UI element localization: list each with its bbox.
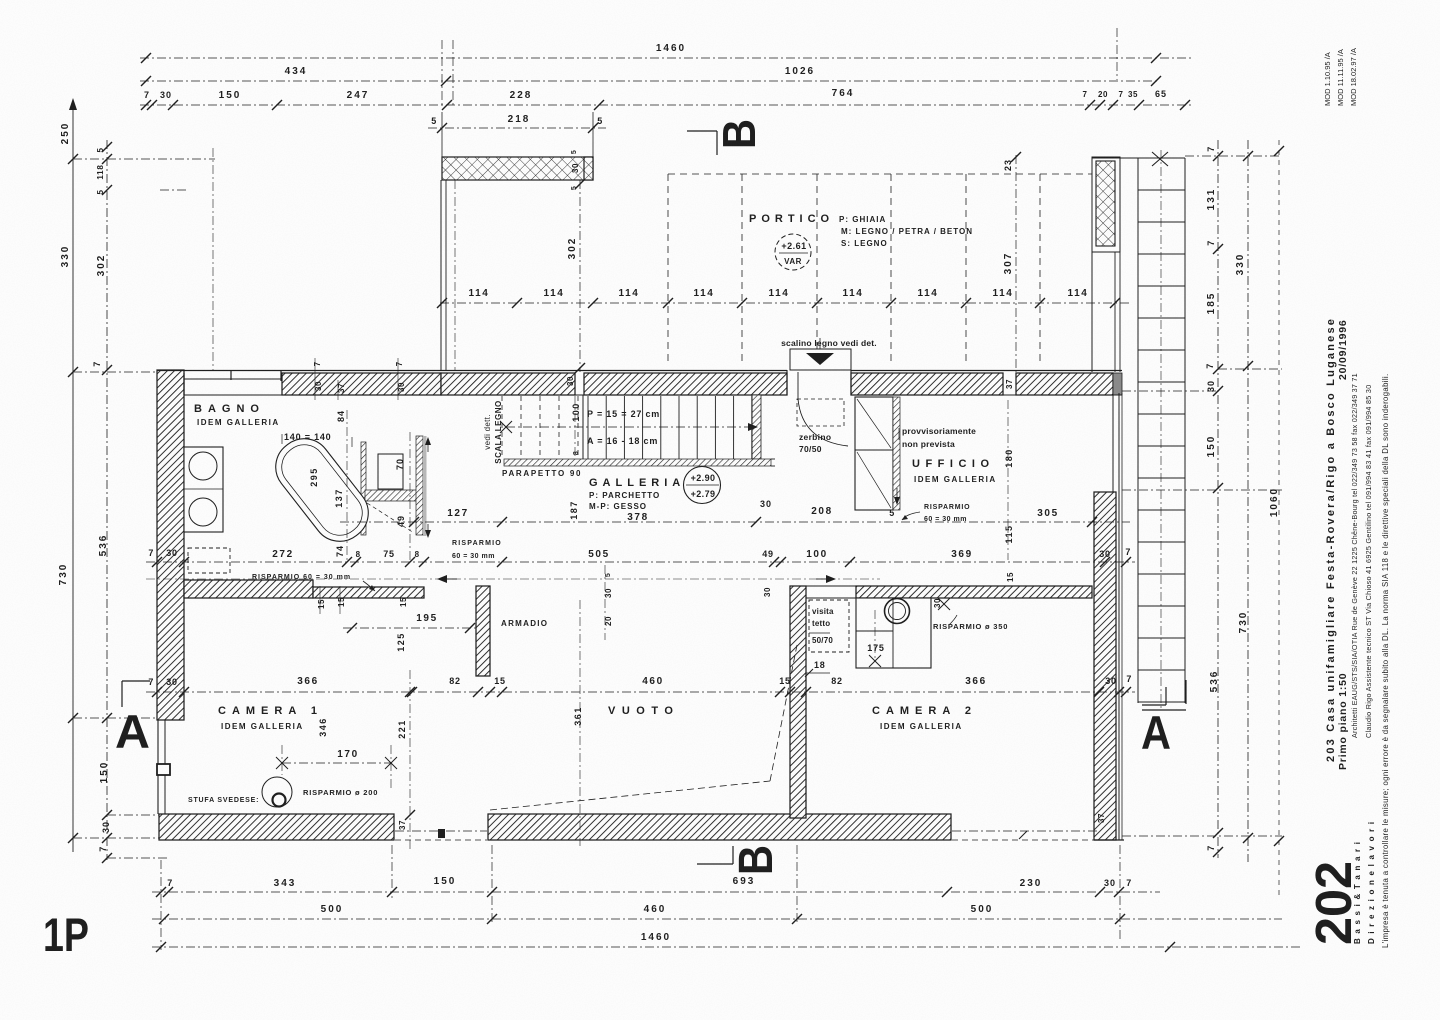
portico column crosshatched right: [1092, 157, 1120, 372]
scalino legno step with arrow: [781, 338, 877, 370]
dimension row 7/30/366/82/15/460/15/82/366/30/7: [146, 674, 1135, 697]
sheet number 202 rotated: [1305, 861, 1362, 945]
label parapetto 90: [502, 469, 582, 478]
external stair ladder right side: [1138, 150, 1185, 710]
wall between vuoto and camera 2 hatched: [790, 586, 806, 818]
portico roof dashed outline and columns: [668, 174, 1092, 364]
dimension line with direction arrows y579: [146, 575, 880, 583]
left outer dimension column 250/330/730: [58, 98, 78, 852]
dimension row total width 1460: [140, 43, 1193, 63]
dimension row 7/30/272/74/8/75/8/505/49/100/369/30/7: [146, 545, 1135, 567]
portico top edge line: [1092, 157, 1185, 159]
bottom vertical extension lines: [161, 845, 1120, 950]
room label GALLERIA: [589, 477, 685, 511]
dimension row 114 portico bays: [437, 288, 1130, 308]
wc partition walls hatched: [361, 436, 427, 536]
label provvisoriamente non prevista: [899, 426, 976, 449]
wall left thin lower segment with pillar: [157, 720, 184, 814]
wc niche arrows: [425, 437, 431, 538]
wall bottom camera 1 hatched: [159, 814, 394, 840]
room label CAMERA 2: [872, 705, 977, 731]
room label PORTICO: [749, 213, 973, 248]
armadio label and dimension 195/125: [343, 613, 548, 652]
wall right exterior hatched: [1094, 393, 1124, 840]
disclaimer line rotated: [1381, 373, 1390, 948]
label 140=140 bathtub: [282, 432, 352, 447]
label 18 camera 2: [805, 660, 830, 677]
subtitle primo piano and date rotated: [1337, 319, 1349, 770]
visita tetto dashed access box: [809, 600, 849, 652]
beam crosshatched 218 top: [442, 157, 593, 180]
label risparmio 60x30 entrance: [894, 488, 970, 523]
right dimension column 330/730: [1235, 140, 1253, 862]
mod revision lines rotated: [1323, 48, 1358, 106]
bottom dimension row 7/343/150/693/230/30/7: [152, 876, 1160, 897]
section mark B bottom: [697, 845, 783, 875]
section mark A right: [1141, 680, 1186, 759]
left inner dimension column 5/118/5/302/7/536/150/30/7: [92, 140, 112, 863]
section mark B top: [687, 119, 765, 155]
dimension vertical 302 shaft: [566, 150, 585, 386]
title 203 casa unifamigliare rotated: [1325, 317, 1337, 762]
dimension 170 stove: [276, 745, 397, 790]
wall stair side hatched: [752, 395, 761, 459]
section line B vertical extension at top: [442, 40, 453, 108]
bagno dashed appliance box: [188, 548, 230, 573]
opening camera 1 south with dashed sill: [395, 829, 487, 840]
room label CAMERA 1: [218, 705, 323, 731]
labels 15 below bagno wall: [317, 586, 408, 614]
dimension row 434 / 1026: [140, 66, 1161, 86]
stair climb direction line: [500, 421, 758, 433]
stufa svedese stove with risparmio 200: [188, 777, 378, 807]
right horizontal extension lines: [1122, 156, 1282, 836]
shaft twin lines below beam: [441, 180, 455, 370]
room label VUOTO: [608, 705, 679, 717]
entrance door with zerbino mat: [797, 372, 848, 454]
wall bottom vuoto and camera 2 hatched: [488, 814, 951, 840]
galleria stair treads: [502, 395, 752, 459]
right dashed dimension column 1060: [1269, 140, 1284, 900]
room label UFFICIO: [912, 458, 997, 484]
short vertical dash line top right: [1116, 28, 1118, 80]
right dimension column 7/131/7/185/7/30/150/536/7: [1205, 140, 1223, 858]
entrance wardrobe: [855, 397, 900, 510]
bottom dimension row total 1460: [152, 932, 1300, 952]
dimension row 127/378/208/5/305: [340, 499, 1130, 527]
wall thickness labels 7/30/37 on top wall: [313, 358, 1014, 400]
vuoto dashed diagonal lines: [490, 645, 797, 810]
label 37 bottom right wall: [1097, 813, 1106, 823]
bagno wc fixture: [378, 454, 403, 489]
camera 2 chimney block with flue: [856, 598, 931, 668]
dimension row 5/218/5 above beam: [428, 112, 606, 157]
room label BAGNO: [194, 403, 280, 427]
wall top exterior with bagno window and entrance opening: [157, 370, 1122, 395]
stair riser labels: [571, 396, 660, 459]
dimension vertical 23/307 portico: [1003, 152, 1021, 372]
label risparmio 350: [933, 598, 1008, 631]
dimension vertical 346 camera1: [318, 717, 328, 737]
wall below bagno hatched: [184, 580, 424, 598]
architects line rotated: [1350, 373, 1362, 944]
wall left exterior hatched: [157, 370, 184, 720]
dimension row 7/30/150/247/228/764/7/20/7/35/65: [140, 88, 1193, 110]
dimension vertical 361 vuoto: [573, 600, 583, 846]
section mark A left: [115, 681, 150, 758]
wall camera 2 north hatched: [806, 586, 1092, 598]
opening camera 2 south with dashed sill: [952, 831, 1098, 840]
level mark +2.61 VAR portico: [775, 234, 811, 270]
bagno double washbasin counter: [184, 447, 223, 532]
bagno bathtub rotated: [265, 428, 379, 552]
level mark +2.90 +2.79 galleria: [684, 467, 721, 504]
label risparmio 60x30 bagno: [252, 574, 375, 591]
dimension vertical 221/37: [397, 670, 415, 850]
parapetto hatched band: [504, 459, 775, 466]
label risparmio 60x30 galleria right: [452, 540, 502, 560]
label vedi dett scala legno rotated: [483, 400, 503, 463]
dimension vertical 180/115 ufficio: [1004, 400, 1014, 560]
small rotated labels 5/30/20/30/15: [604, 565, 1015, 640]
bagno interior dimension labels 295/137/84/70/49: [309, 410, 410, 560]
plan label 1P: [43, 908, 89, 961]
wall armadio hatched: [476, 586, 490, 676]
direzione lavori line rotated: [1364, 385, 1376, 945]
bottom dimension row 500/460/500: [152, 904, 1282, 924]
left horizontal extension lines: [73, 148, 215, 858]
